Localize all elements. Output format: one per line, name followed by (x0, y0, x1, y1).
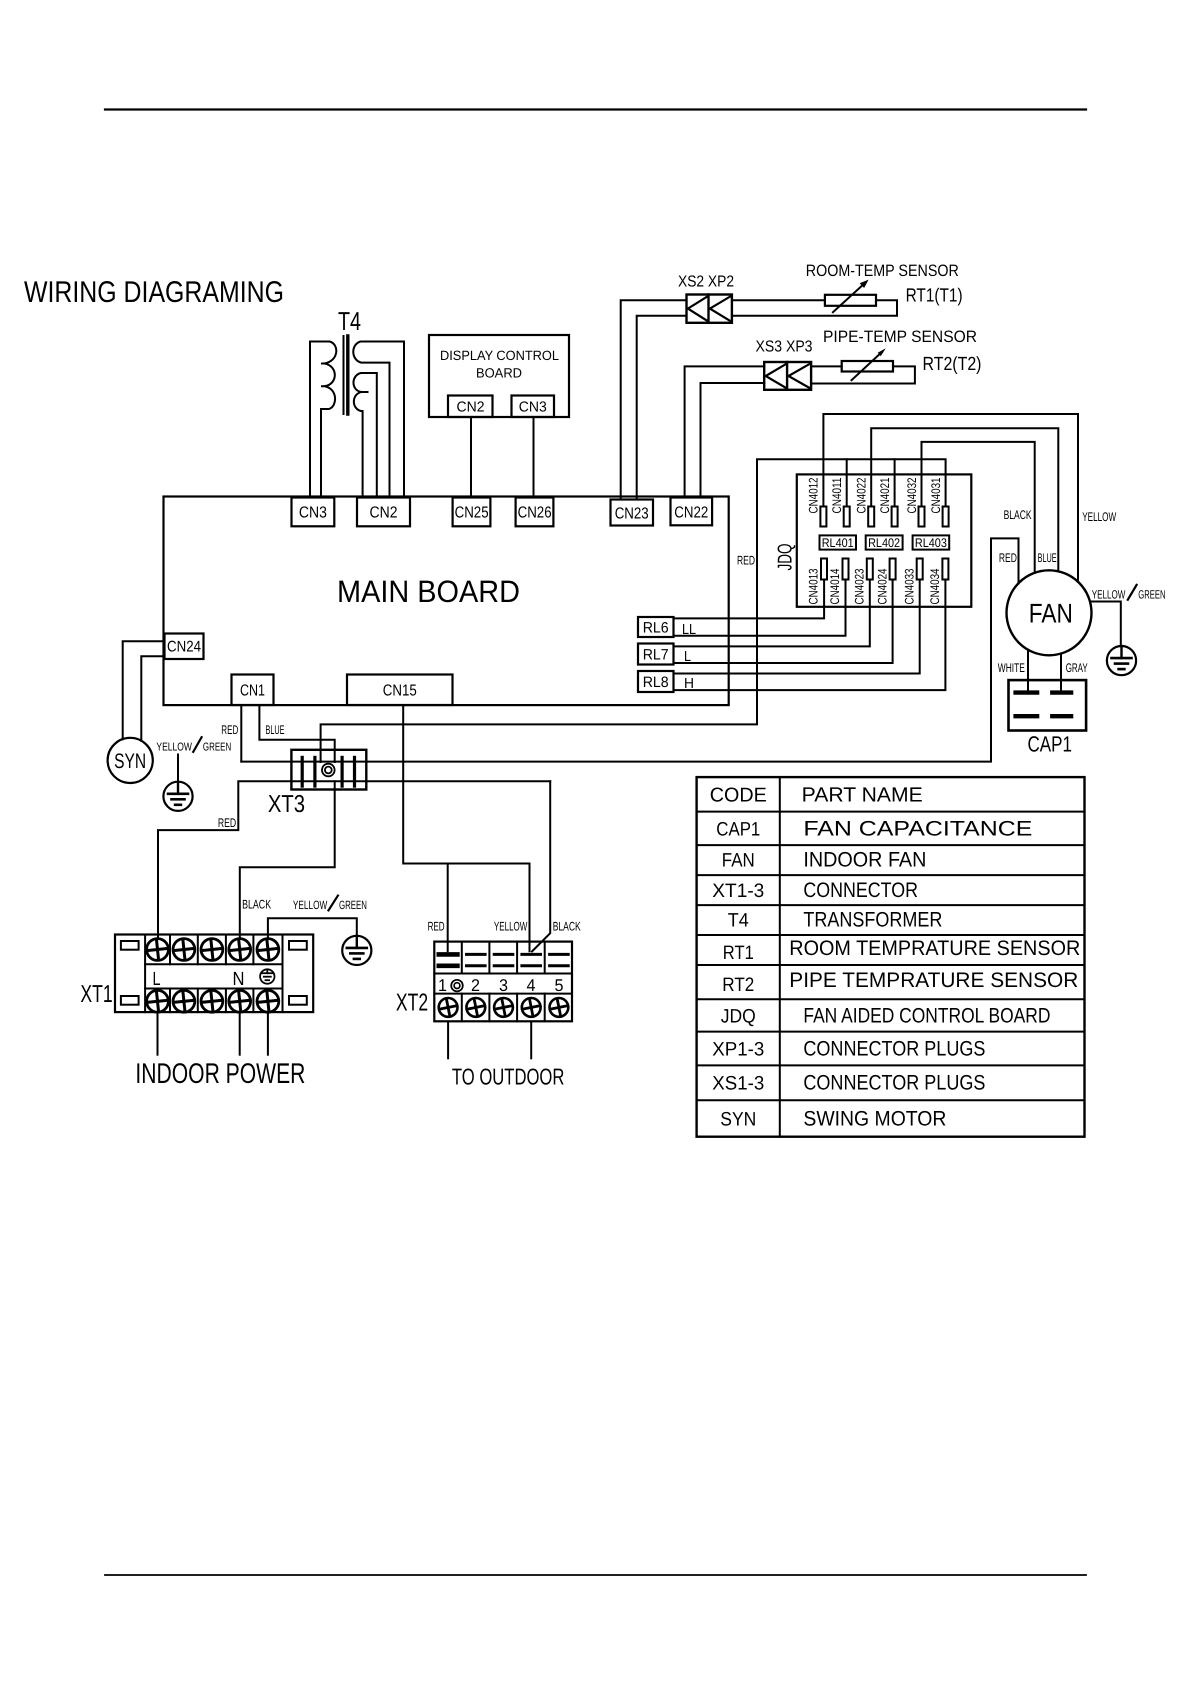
wire CN24 pin2 to SYN (141, 656, 164, 740)
wire fan WHITE to CAP1 (1027, 650, 1029, 691)
svg-text:RED: RED (999, 551, 1017, 565)
wire fan RED to XT3 (241, 538, 1018, 761)
transformer T4 core (343, 336, 345, 414)
sensor RT1 arrow (833, 283, 865, 312)
svg-text:RL401: RL401 (822, 536, 854, 550)
svg-text:RL7: RL7 (643, 647, 669, 664)
pin CN4021 (892, 507, 898, 527)
svg-text:BLACK: BLACK (1004, 508, 1032, 522)
svg-text:GREEN: GREEN (339, 898, 367, 912)
svg-text:CN3: CN3 (519, 400, 547, 416)
svg-text:CN4023: CN4023 (853, 568, 867, 604)
wire CN4011 stub to common (846, 459, 848, 506)
svg-text:XT2: XT2 (396, 990, 428, 1017)
wire CN15 to XT2 pin1 RED/YELLOW (403, 705, 529, 951)
pin CN4032 (919, 507, 925, 527)
svg-text:PIPE-TEMP SENSOR: PIPE-TEMP SENSOR (823, 328, 977, 346)
connector CN15 (347, 675, 453, 706)
wire BLACK drop to XT2 pin4 (532, 781, 550, 951)
wire RL8 top to JDQ CN4033 (674, 580, 920, 674)
XT3 pin 4 (353, 757, 356, 786)
wire XS2 to RT1 (732, 299, 825, 301)
terminal block XT1 outer box (115, 935, 313, 1013)
svg-text:XT1-3: XT1-3 (712, 880, 764, 902)
wire XT1 yellow/green to ground (268, 918, 357, 939)
display control board U-DCB box (429, 335, 569, 417)
pin CN4013 (821, 559, 827, 580)
pin CN4031 (943, 507, 949, 527)
svg-text:BLACK: BLACK (553, 920, 581, 934)
svg-text:CN4011: CN4011 (830, 477, 844, 513)
svg-text:CN4014: CN4014 (828, 568, 842, 604)
svg-text:DISPLAY CONTROL: DISPLAY CONTROL (440, 348, 559, 363)
svg-text:CN15: CN15 (383, 683, 417, 700)
wire CN4012 to fan YELLOW (823, 414, 1078, 582)
svg-text:CAP1: CAP1 (716, 819, 760, 841)
svg-text:CN4021: CN4021 (878, 477, 892, 513)
svg-text:PIPE TEMPRATURE SENSOR: PIPE TEMPRATURE SENSOR (789, 969, 1078, 992)
svg-text:CN1: CN1 (240, 683, 265, 700)
connector CN3 (display board) (512, 396, 555, 418)
connector CN25 (453, 498, 491, 527)
XT2 hole mark (451, 980, 463, 992)
svg-text:JDQ: JDQ (775, 544, 797, 571)
svg-text:CODE: CODE (710, 785, 767, 807)
wire CN1 RED stub (240, 705, 242, 762)
svg-text:YELLOW: YELLOW (1082, 510, 1116, 524)
svg-text:RT1(T1): RT1(T1) (906, 286, 963, 307)
svg-text:3: 3 (499, 976, 508, 995)
XT2 terminal dashes pin2 (467, 953, 486, 956)
svg-text:CONNECTOR PLUGS: CONNECTOR PLUGS (803, 1038, 985, 1061)
pin CN4014 (843, 559, 849, 580)
transformer T4 primary winding (310, 342, 336, 498)
svg-text:RED: RED (218, 816, 236, 830)
connector plug XS3 XP3 symbol (764, 362, 811, 390)
relay RL7 (638, 644, 674, 665)
svg-text:CONNECTOR: CONNECTOR (803, 879, 918, 902)
wire XS3 to RT2 (811, 365, 842, 367)
relay RL6 (638, 617, 674, 637)
svg-text:GREEN: GREEN (1138, 588, 1165, 602)
svg-text:CN4033: CN4033 (902, 568, 916, 604)
svg-text:CN4012: CN4012 (807, 477, 821, 513)
wire SYN yellow/green to ground (177, 755, 179, 782)
relay RL401 (820, 535, 857, 549)
svg-text:BLACK: BLACK (242, 898, 271, 912)
svg-text:TRANSFORMER: TRANSFORMER (803, 909, 942, 932)
connector CN2 (main board) (357, 498, 410, 527)
wire RED drop to XT2 pin1 (447, 864, 449, 952)
svg-text:CN24: CN24 (167, 639, 201, 656)
pin CN4012 (820, 507, 826, 527)
svg-text:CN4034: CN4034 (928, 568, 942, 604)
svg-text:XP1-3: XP1-3 (712, 1039, 764, 1061)
svg-text:SYN: SYN (114, 750, 146, 773)
wire XT2 pin4 down (530, 1022, 532, 1058)
svg-text:SWING MOTOR: SWING MOTOR (803, 1108, 946, 1131)
svg-text:JDQ: JDQ (721, 1006, 756, 1028)
capacitor CAP1 box (1009, 680, 1087, 730)
wire CN4031 common RED to XT3 (321, 459, 946, 762)
sensor RT1 body (825, 295, 876, 306)
ground (SYN side) (163, 782, 192, 811)
XT2 terminal dashes pin1 (439, 952, 458, 957)
indoor fan FAN (1007, 570, 1092, 655)
svg-text:YELLOW: YELLOW (293, 898, 328, 912)
XT2 screw terminals (439, 998, 458, 1017)
wire XT3 lower row to XT1 and XT2 (158, 781, 550, 938)
svg-text:XT1: XT1 (80, 981, 112, 1008)
svg-text:CN2: CN2 (370, 505, 398, 522)
svg-text:CN23: CN23 (615, 506, 649, 523)
wire RT2 return loop (811, 366, 915, 383)
connector CN23 (611, 500, 654, 526)
svg-text:RED: RED (221, 723, 238, 737)
wire CN23 pin1 to XS2 (621, 300, 687, 499)
svg-text:CAP1: CAP1 (1028, 732, 1073, 757)
pin CN4034 (942, 559, 948, 580)
svg-text:CN4031: CN4031 (929, 477, 943, 513)
XT3 pin 2 (313, 757, 316, 786)
svg-text:MAIN BOARD: MAIN BOARD (337, 574, 520, 609)
XT1 mounting slots (121, 941, 139, 950)
svg-text:PART NAME: PART NAME (802, 784, 923, 807)
connector XT3 box (291, 750, 366, 790)
svg-text:BLUE: BLUE (266, 723, 285, 737)
terminal block XT2 outer box (434, 942, 572, 1022)
svg-text:2: 2 (471, 976, 480, 995)
wire RL7 bottom to JDQ CN4024 (674, 580, 893, 663)
svg-text:CN3: CN3 (299, 505, 327, 522)
XT3 pin 1 (301, 757, 304, 786)
svg-text:RL6: RL6 (643, 620, 669, 637)
svg-text:T4: T4 (728, 910, 749, 932)
wire XT1 L lead down (157, 1013, 159, 1054)
relay RL8 (638, 671, 674, 692)
bottom rule (105, 1574, 1086, 1576)
svg-text:YELLOW: YELLOW (494, 920, 528, 934)
connector CN24 (165, 634, 204, 660)
XT2 terminal dashes pin3 (494, 953, 513, 956)
wire display CN3 to CN26 (533, 417, 535, 498)
sensor RT2 arrow (852, 352, 883, 380)
svg-text:XS2 XP2: XS2 XP2 (678, 274, 734, 291)
pin CN4024 (890, 559, 896, 580)
svg-text:CN25: CN25 (455, 505, 489, 522)
svg-text:FAN: FAN (1029, 599, 1073, 629)
XT2 terminal dashes pin5 (550, 953, 569, 956)
XT1 screw terminals top row (147, 939, 169, 961)
svg-text:XS3 XP3: XS3 XP3 (756, 339, 813, 356)
wire CN24 pin1 to SYN (123, 641, 165, 739)
wire CN1 BLUE through XT3 to XT1 (259, 705, 334, 762)
svg-text:FAN CAPACITANCE: FAN CAPACITANCE (803, 818, 1032, 841)
wire CN4032 to fan BLACK (922, 442, 1035, 573)
svg-text:RT2: RT2 (722, 974, 754, 996)
svg-text:CN4013: CN4013 (807, 568, 821, 604)
svg-text:ROOM TEMPRATURE SENSOR: ROOM TEMPRATURE SENSOR (789, 937, 1080, 960)
svg-text:RL402: RL402 (868, 536, 900, 550)
svg-text:ROOM-TEMP SENSOR: ROOM-TEMP SENSOR (806, 262, 959, 280)
wire fan GRAY to CAP1 (1060, 654, 1062, 691)
svg-text:WHITE: WHITE (998, 661, 1025, 675)
wire XT2 pin1 down (447, 1022, 449, 1058)
svg-text:RT1: RT1 (723, 942, 754, 964)
wire fan YELLOW/GREEN to ground (1090, 602, 1121, 647)
XT3 pin 3 (341, 757, 344, 786)
main board box (164, 497, 729, 706)
svg-text:RT2(T2): RT2(T2) (923, 354, 982, 375)
svg-text:FAN AIDED CONTROL BOARD: FAN AIDED CONTROL BOARD (803, 1005, 1050, 1028)
ground (fan side) (1107, 646, 1136, 675)
connector CN3 (main board) (292, 498, 335, 527)
svg-text:CN4024: CN4024 (875, 568, 889, 604)
relay RL403 (913, 535, 950, 549)
pin CN4011 (844, 507, 850, 527)
svg-text:TO OUTDOOR: TO OUTDOOR (452, 1064, 565, 1090)
swing motor SYN (108, 738, 153, 783)
svg-text:RL8: RL8 (643, 674, 669, 691)
svg-text:YELLOW: YELLOW (156, 741, 192, 753)
svg-text:RL403: RL403 (915, 536, 947, 550)
pin CN4022 (868, 507, 874, 527)
relay RL402 (866, 535, 903, 549)
svg-text:CONNECTOR PLUGS: CONNECTOR PLUGS (803, 1072, 985, 1095)
wire CN22 pin1 to XS3 (685, 366, 765, 497)
parts table frame (697, 777, 1085, 1137)
svg-text:BLUE: BLUE (1038, 551, 1057, 565)
svg-text:N: N (233, 969, 245, 990)
wire RT1 return loop (732, 300, 897, 316)
ground (XT1 side) (342, 936, 371, 965)
svg-text:RED: RED (737, 554, 755, 568)
wire CN4022 to fan BLUE (871, 428, 1058, 571)
svg-text:INDOOR FAN: INDOOR FAN (803, 849, 926, 872)
top rule (105, 108, 1086, 110)
wire display CN2 to CN25 (470, 417, 472, 498)
wire RL8 bottom to JDQ CN4034 (674, 580, 946, 690)
XT1 screw terminals bottom row (147, 990, 169, 1012)
transformer T4 secondary winding lower (353, 373, 376, 498)
XT3 center hole (322, 764, 335, 777)
svg-text:CN26: CN26 (518, 505, 552, 522)
svg-text:5: 5 (555, 976, 564, 995)
svg-text:CN22: CN22 (674, 505, 708, 522)
svg-text:SYN: SYN (720, 1109, 756, 1131)
svg-text:1: 1 (438, 976, 447, 995)
sensor RT2 body (842, 361, 893, 372)
wire RL6 bottom to JDQ CN4014 (674, 580, 846, 636)
wire CN22 pin2 to XS3 (701, 383, 765, 498)
svg-text:CN2: CN2 (457, 400, 485, 416)
svg-text:XT3: XT3 (268, 791, 305, 818)
transformer T4 secondary winding upper (353, 342, 404, 498)
wire CN4021 stub to common (894, 459, 896, 506)
wire CN23 pin2 to XS2 (637, 316, 687, 500)
wire XT1 N lead down (239, 1013, 241, 1054)
fan aided control board JDQ box (797, 474, 972, 606)
connector CN22 (671, 498, 713, 526)
svg-text:INDOOR POWER: INDOOR POWER (135, 1058, 305, 1090)
XT2 terminal dashes pin4 (522, 953, 541, 956)
connector CN2 (display board) (448, 396, 493, 418)
svg-text:L: L (153, 969, 161, 990)
svg-text:BOARD: BOARD (476, 366, 522, 381)
pin CN4023 (867, 559, 873, 580)
connector CN26 (516, 498, 554, 527)
svg-text:RED: RED (428, 920, 445, 934)
svg-text:FAN: FAN (722, 850, 755, 872)
pin CN4033 (917, 559, 923, 580)
svg-text:CN4022: CN4022 (855, 477, 869, 513)
svg-text:YELLOW: YELLOW (1092, 588, 1126, 602)
wire RL6 top to JDQ CN4013 (674, 580, 825, 618)
svg-text:GREEN: GREEN (203, 741, 231, 753)
connector CN1 (232, 675, 274, 706)
svg-text:CN4032: CN4032 (905, 477, 919, 513)
svg-text:4: 4 (527, 976, 536, 995)
svg-text:GRAY: GRAY (1066, 661, 1088, 675)
svg-text:T4: T4 (338, 306, 361, 336)
connector plug XS2 XP2 symbol (687, 295, 732, 323)
svg-text:WIRING DIAGRAMING: WIRING DIAGRAMING (24, 276, 284, 309)
wire XT1 earth lead down (267, 1013, 269, 1054)
svg-text:XS1-3: XS1-3 (712, 1073, 764, 1095)
earth mark in XT1 (260, 969, 274, 983)
wire RL7 top to JDQ CN4023 (674, 580, 870, 646)
